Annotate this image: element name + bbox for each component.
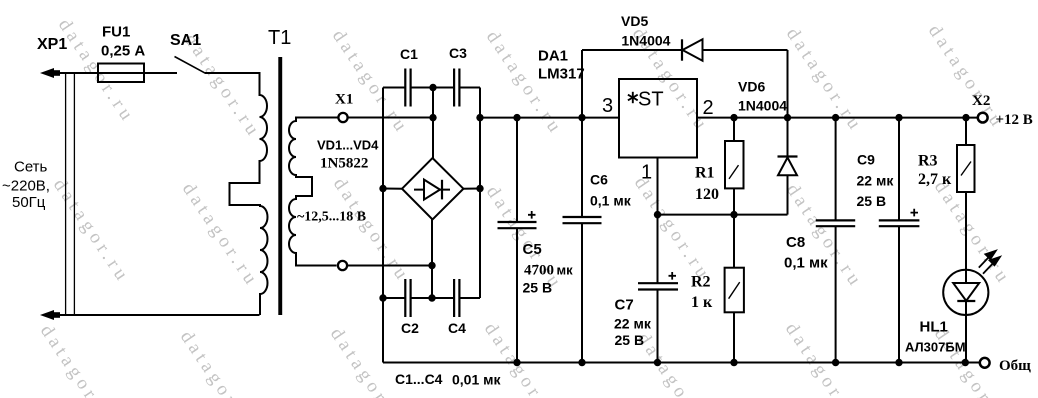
svg-text:C4: C4 <box>448 320 466 336</box>
svg-text:50Гц: 50Гц <box>12 194 46 211</box>
svg-text:SA1: SA1 <box>170 32 201 49</box>
svg-text:R3: R3 <box>918 153 938 170</box>
svg-text:~12,5...18 В: ~12,5...18 В <box>297 210 366 225</box>
svg-text:25 В: 25 В <box>857 193 887 209</box>
svg-text:C2: C2 <box>401 320 419 336</box>
svg-text:0,01 мк: 0,01 мк <box>452 372 501 388</box>
svg-text:22 мк: 22 мк <box>614 316 652 332</box>
svg-text:VD5: VD5 <box>621 13 648 29</box>
resistor R1 <box>725 141 744 188</box>
svg-text:25 В: 25 В <box>523 280 553 296</box>
terminal Common <box>980 358 990 368</box>
node ADJ pin1 <box>654 211 661 218</box>
plug XP1 arrow bottom <box>40 310 54 320</box>
node VD5 output <box>784 114 791 121</box>
diode VD6 <box>787 118 789 156</box>
wire mains bottom <box>54 314 260 316</box>
capacitor C6 and VD5 riser <box>581 50 583 217</box>
node R1 top <box>730 114 737 121</box>
svg-text:АЛ307БМ: АЛ307БМ <box>905 340 966 355</box>
capacitor row top wires <box>383 87 405 89</box>
bridge left rail <box>382 88 384 363</box>
svg-text:VD6: VD6 <box>738 79 765 95</box>
star in DA1 <box>628 92 638 103</box>
svg-text:2: 2 <box>703 97 714 119</box>
bridge rectifier VD1-VD4 diamond <box>402 158 463 219</box>
capacitor C5 <box>516 118 518 222</box>
node C8 top <box>832 114 839 121</box>
node bridge right rail top <box>476 114 483 121</box>
svg-text:мк: мк <box>557 263 574 278</box>
plug XP1 arrow top <box>40 68 54 78</box>
svg-text:Х2: Х2 <box>972 93 990 109</box>
svg-text:Т1: Т1 <box>268 27 291 49</box>
terminal X2 <box>978 113 988 123</box>
regulator DA1 box <box>619 79 697 158</box>
svg-text:R1: R1 <box>695 165 715 182</box>
svg-text:1N4004: 1N4004 <box>621 33 670 49</box>
svg-text:C7: C7 <box>615 297 634 314</box>
node rail C6 <box>578 359 585 366</box>
node rail HL1 <box>962 359 969 366</box>
ground rail bottom <box>383 362 980 364</box>
svg-text:C1: C1 <box>400 46 418 62</box>
svg-text:LM317: LM317 <box>538 66 585 83</box>
capacitor C9 <box>898 118 900 220</box>
node C5 top <box>513 114 520 121</box>
node X2 branch <box>962 114 969 121</box>
svg-text:C5: C5 <box>523 241 542 258</box>
bridge right rail <box>479 88 481 299</box>
wire X1 bottom to bridge <box>348 265 433 267</box>
diode VD5 <box>683 39 703 60</box>
svg-text:VD1...VD4: VD1...VD4 <box>317 138 379 153</box>
wire VD5 to output node <box>787 50 789 118</box>
node C9 top <box>895 114 902 121</box>
LED arrows <box>979 256 990 267</box>
node bridge top AC <box>429 84 436 91</box>
svg-text:1: 1 <box>641 162 652 184</box>
plug XP1 boundary lines <box>65 73 67 315</box>
fuse FU1 <box>98 64 144 83</box>
svg-text:1N4004: 1N4004 <box>738 98 787 114</box>
LED HL1 <box>943 270 988 315</box>
svg-text:22 мк: 22 мк <box>857 173 895 189</box>
wire SA1 to T1 <box>205 73 260 96</box>
wire DA1 pin1 <box>657 158 659 283</box>
bridge inner diode <box>414 189 450 191</box>
svg-text:DA1: DA1 <box>538 48 568 65</box>
svg-text:Сеть: Сеть <box>14 159 48 176</box>
svg-text:FU1: FU1 <box>102 24 130 41</box>
capacitor C4 <box>453 279 455 317</box>
switch SA1 blade <box>175 57 206 74</box>
svg-text:C8: C8 <box>786 234 805 251</box>
svg-text:+12 В: +12 В <box>996 112 1033 128</box>
node rail C7 <box>654 359 661 366</box>
svg-text:1N5822: 1N5822 <box>320 156 368 172</box>
wire DC plus rail to DA1 pin3 <box>480 117 619 119</box>
wire ADJ node <box>658 214 788 216</box>
node rail C9 <box>895 359 902 366</box>
svg-text:0,25 А: 0,25 А <box>101 43 145 60</box>
transformer T1 core <box>278 57 282 315</box>
node ADJ R1 R2 <box>730 211 737 218</box>
wire bridge bottom vertex <box>431 219 433 298</box>
resistor R2 <box>725 268 744 313</box>
svg-text:3: 3 <box>602 95 613 117</box>
node C6 top <box>578 114 585 121</box>
capacitor C2 <box>404 279 406 317</box>
svg-text:C3: C3 <box>449 45 467 61</box>
wire right vertex stub <box>462 188 480 190</box>
wire DA1 pin2 output <box>697 117 978 119</box>
svg-text:ST: ST <box>638 89 664 111</box>
svg-text:XP1: XP1 <box>37 36 67 53</box>
capacitor C3 <box>453 69 455 107</box>
node bridge bottom AC <box>428 262 435 269</box>
transformer T1 primary winding <box>230 95 268 315</box>
wire left vertex stub <box>383 188 403 190</box>
svg-text:120: 120 <box>695 186 719 203</box>
transformer T1 secondary winding <box>289 118 338 266</box>
svg-text:2,7 к: 2,7 к <box>918 171 952 188</box>
wire X1 top to bridge <box>349 117 434 119</box>
svg-text:4700: 4700 <box>524 263 554 279</box>
capacitor C8 <box>835 118 837 220</box>
svg-text:C1...C4: C1...C4 <box>395 371 443 387</box>
diode VD5 wire <box>582 49 788 51</box>
svg-text:C6: C6 <box>590 172 608 188</box>
svg-text:C9: C9 <box>857 152 875 168</box>
node bridge left vertex <box>379 185 386 192</box>
svg-text:1 к: 1 к <box>691 294 713 311</box>
node rail C8 <box>832 359 839 366</box>
svg-text:Х1: Х1 <box>335 92 353 108</box>
svg-text:Общ: Общ <box>999 358 1031 374</box>
wire mains top <box>54 72 177 74</box>
node cap row bottom left <box>379 294 386 301</box>
terminal X1 top <box>338 113 347 122</box>
terminal X1 bottom <box>338 261 347 270</box>
capacitor C7 <box>638 282 678 284</box>
wire bridge top vertex <box>432 88 434 159</box>
svg-text:25 В: 25 В <box>615 332 645 348</box>
node rail C5 <box>513 359 520 366</box>
node rail R2 <box>730 359 737 366</box>
capacitor row bottom wires <box>383 297 405 299</box>
svg-text:HL1: HL1 <box>920 319 948 336</box>
node bridge right vertex <box>476 185 483 192</box>
svg-text:R2: R2 <box>691 274 711 291</box>
svg-text:~220В,: ~220В, <box>2 178 50 195</box>
resistor R3 <box>957 145 975 192</box>
svg-text:0,1 мк: 0,1 мк <box>590 193 632 209</box>
capacitor C1 <box>404 69 406 107</box>
svg-text:0,1 мк: 0,1 мк <box>784 255 828 272</box>
